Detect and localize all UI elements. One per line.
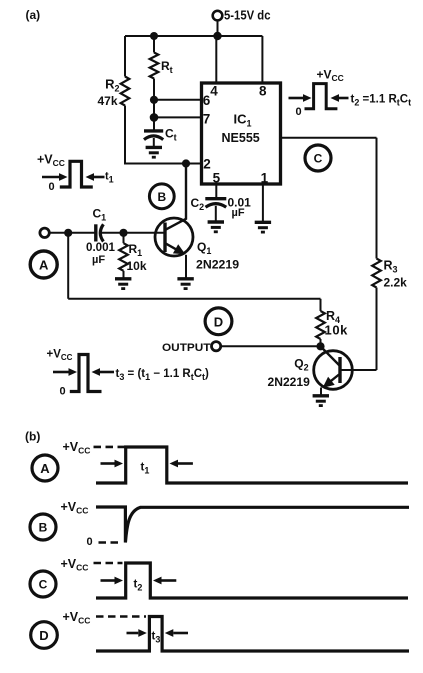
label R1 — [129, 242, 143, 258]
wire Q1 base — [124, 232, 166, 234]
svg-text:D: D — [39, 628, 48, 643]
label IC1 — [234, 112, 252, 129]
resistor R3 — [372, 259, 381, 288]
svg-text:Rt: Rt — [161, 59, 173, 75]
input terminal — [40, 228, 49, 237]
svg-text:t3: t3 — [152, 630, 161, 644]
junction C1/R1/base — [119, 229, 127, 237]
label 0.01 — [228, 196, 252, 210]
svg-text:+VCC: +VCC — [37, 153, 65, 169]
label 2N2219 Q1 — [196, 258, 239, 272]
label 10k R1 — [127, 259, 147, 273]
waveform C +Vcc label — [61, 557, 89, 573]
svg-text:2N2219: 2N2219 — [196, 258, 239, 272]
svg-text:R2: R2 — [105, 77, 119, 94]
transistor Q1 — [155, 164, 193, 279]
svg-text:0: 0 — [87, 536, 93, 548]
wire pin 6 — [154, 99, 202, 101]
junction Rt/pin6 — [150, 96, 158, 104]
svg-text:Ct: Ct — [165, 127, 177, 143]
ground Q2 emitter — [313, 396, 329, 406]
label t3 formula — [116, 368, 210, 382]
figure label (a) — [26, 8, 41, 22]
waveform C Vcc dashed level — [94, 562, 123, 565]
wire pin 1 lead — [262, 184, 264, 222]
ground R1 — [115, 279, 131, 289]
junction pin2/Q1 collector — [182, 159, 190, 167]
label NE555 — [222, 131, 260, 145]
label Q1 — [197, 240, 211, 256]
svg-text:1: 1 — [261, 171, 269, 186]
resistor R2 — [121, 77, 130, 106]
wire input to C1 — [49, 232, 96, 234]
capacitor C2 — [205, 199, 226, 222]
svg-text:C: C — [39, 578, 48, 592]
wire node A vertical — [67, 233, 69, 299]
label 2N2219 Q2 — [268, 375, 311, 389]
wire left rail upper (R2 top lead) — [124, 36, 126, 77]
waveform B zero label — [87, 536, 93, 548]
svg-text:2.2k: 2.2k — [384, 276, 408, 290]
label t3 waveform — [152, 630, 161, 644]
svg-text:5-15V dc: 5-15V dc — [224, 8, 271, 23]
svg-text:0: 0 — [49, 181, 55, 193]
svg-text:B: B — [157, 190, 166, 204]
ground pin1 — [255, 222, 271, 232]
svg-text:0.001: 0.001 — [86, 240, 115, 254]
ground Ct — [146, 147, 162, 157]
waveform D +Vcc label — [63, 610, 91, 626]
label R4 — [326, 309, 340, 325]
wire right rail upper — [376, 138, 378, 259]
pin 1 label — [261, 171, 269, 186]
svg-text:(b): (b) — [25, 430, 40, 444]
power terminal 5-15V dc — [213, 11, 223, 36]
svg-text:A: A — [40, 461, 50, 476]
resistor R4 top lead — [320, 299, 322, 311]
resistor R1 lead — [123, 233, 125, 243]
wire pin 3 to right rail — [281, 137, 377, 139]
label t1 pulse — [105, 170, 114, 184]
svg-text:B: B — [39, 521, 48, 535]
svg-text:Q2: Q2 — [294, 357, 308, 373]
svg-text:OUTPUT: OUTPUT — [162, 342, 211, 354]
svg-text:2: 2 — [203, 156, 211, 171]
svg-text:10k: 10k — [127, 259, 147, 273]
ground Q1 emitter — [177, 279, 193, 289]
resistor R1 — [119, 243, 128, 271]
svg-text:IC1: IC1 — [234, 112, 252, 129]
label R3 — [384, 258, 398, 274]
wire bottom rail — [68, 298, 320, 300]
wire R1 bottom lead — [123, 271, 125, 278]
waveform C width arrows — [101, 577, 177, 585]
capacitor Ct — [144, 117, 163, 147]
svg-text:5: 5 — [213, 171, 221, 186]
wire pin 8 lead — [261, 36, 263, 83]
wire left rail lower (R2 bottom to pin2 line) — [124, 106, 126, 165]
ground C2 — [208, 222, 224, 232]
node C — [305, 145, 331, 171]
svg-text:+VCC: +VCC — [317, 68, 344, 84]
svg-text:(a): (a) — [26, 8, 41, 22]
pulse t2 zero label — [296, 106, 302, 118]
waveform C node circle — [30, 571, 56, 597]
svg-text:C2: C2 — [191, 196, 205, 212]
pulse symbol t1 — [42, 161, 105, 187]
svg-text:µF: µF — [232, 207, 245, 219]
svg-text:Q1: Q1 — [197, 240, 211, 256]
label Rt — [161, 59, 173, 75]
node A — [30, 251, 57, 278]
waveform A trace — [96, 447, 408, 483]
junction supply/Rt node — [150, 32, 158, 40]
svg-text:10k: 10k — [325, 322, 349, 337]
wire pin 4 lead — [215, 36, 217, 83]
label t2 formula — [351, 94, 412, 108]
pin 2 label — [203, 156, 211, 171]
wire right rail lower — [376, 288, 378, 371]
svg-text:+VCC: +VCC — [47, 349, 73, 363]
svg-text:R3: R3 — [384, 258, 398, 274]
svg-text:7: 7 — [203, 112, 211, 127]
svg-text:t1: t1 — [105, 170, 114, 184]
label OUTPUT — [162, 342, 211, 354]
waveform A node circle — [32, 455, 58, 481]
label t2 waveform — [134, 578, 143, 592]
pulse t1 +Vcc label — [37, 153, 65, 169]
waveform B +Vcc label — [61, 500, 89, 516]
waveform D width arrows — [127, 629, 189, 637]
pulse symbol t3 — [53, 355, 114, 392]
junction supply terminal node — [213, 32, 221, 40]
node D — [205, 308, 232, 335]
label Q2 — [294, 357, 308, 373]
label Ct — [165, 127, 177, 143]
svg-text:+VCC: +VCC — [61, 557, 89, 573]
pulse t3 +Vcc label — [47, 349, 73, 363]
svg-text:2N2219: 2N2219 — [268, 375, 311, 389]
label 5-15V dc — [224, 8, 271, 23]
svg-text:t1: t1 — [141, 461, 150, 475]
pulse t3 zero label — [60, 386, 66, 398]
wire output — [221, 345, 321, 347]
label 0.001 — [86, 240, 115, 254]
svg-text:0: 0 — [296, 106, 302, 118]
label R2 — [105, 77, 119, 94]
label 47k — [97, 94, 117, 108]
label t1 waveform — [141, 461, 150, 475]
svg-text:C: C — [314, 152, 323, 166]
pin 7 label — [203, 112, 211, 127]
svg-text:4: 4 — [210, 83, 218, 98]
svg-text:NE555: NE555 — [222, 131, 260, 145]
svg-text:+VCC: +VCC — [61, 500, 89, 516]
waveform B node circle — [30, 514, 56, 540]
svg-text:A: A — [39, 258, 49, 273]
pin 6 label — [203, 93, 211, 108]
svg-text:t3 = (t1 − 1.1 RtCt): t3 = (t1 − 1.1 RtCt) — [116, 368, 210, 382]
junction R4/output/Q2 — [316, 342, 324, 350]
pulse symbol t2 — [289, 84, 349, 109]
label C1 — [93, 206, 107, 222]
waveform A width arrows — [101, 460, 193, 468]
capacitor C1 — [96, 224, 124, 241]
svg-text:8: 8 — [259, 83, 267, 98]
pin 4 label — [210, 83, 218, 98]
svg-text:47k: 47k — [97, 94, 117, 108]
waveform D trace — [96, 617, 409, 652]
wire top supply rail — [125, 35, 262, 37]
figure label (b) — [25, 430, 40, 444]
svg-text:C1: C1 — [93, 206, 107, 222]
svg-text:6: 6 — [203, 93, 211, 108]
svg-text:t2: t2 — [134, 578, 143, 592]
svg-text:+VCC: +VCC — [63, 440, 91, 456]
svg-text:D: D — [214, 314, 223, 329]
resistor Rt — [150, 53, 159, 79]
waveform A +Vcc label — [63, 440, 91, 456]
svg-text:+VCC: +VCC — [63, 610, 91, 626]
wire pin 2 — [125, 163, 202, 165]
svg-text:t2 =1.1 RtCt: t2 =1.1 RtCt — [351, 94, 412, 108]
waveform A Vcc dashed level — [94, 446, 125, 449]
svg-text:R1: R1 — [129, 242, 143, 258]
label uF C1 — [92, 254, 105, 266]
IC1 NE555 box — [202, 83, 281, 184]
junction Ct/pin7 — [150, 113, 159, 122]
node B — [149, 184, 174, 209]
wire Rt-Ct segment — [153, 100, 155, 118]
svg-text:µF: µF — [92, 254, 105, 266]
svg-text:0: 0 — [60, 386, 66, 398]
label 2.2k — [384, 276, 408, 290]
waveform D Vcc dashed level — [96, 615, 146, 618]
pulse t1 zero label — [49, 181, 55, 193]
pin 8 label — [259, 83, 267, 98]
wire pin 7 — [154, 116, 202, 118]
label C2 — [191, 196, 205, 212]
wire Rt bottom lead — [153, 79, 155, 100]
label 10k R4 — [325, 322, 349, 337]
transistor Q2 — [314, 346, 377, 395]
output terminal — [212, 342, 221, 351]
label uF C2 — [232, 207, 245, 219]
junction input/node-A branch — [64, 229, 72, 237]
pulse t2 +Vcc label — [317, 68, 344, 84]
resistor R4 — [316, 311, 325, 339]
resistor Rt lead — [153, 36, 155, 53]
wire pin 5 lead — [215, 184, 217, 197]
waveform B zero dashed level — [99, 541, 123, 544]
wire R4 bottom lead — [320, 339, 322, 346]
waveform D node circle — [31, 622, 58, 649]
pin 5 label — [213, 171, 221, 186]
waveform C trace — [96, 563, 408, 598]
waveform B trace — [96, 507, 409, 543]
